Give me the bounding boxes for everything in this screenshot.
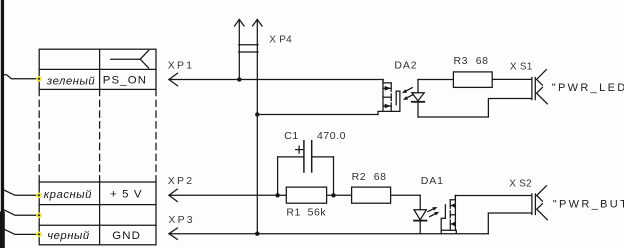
- svg-text:красный: красный: [44, 189, 92, 201]
- DA2 LED cathode rail: [417, 102, 419, 117]
- svg-text:XP1: XP1: [168, 60, 194, 72]
- DA2 LED anode rail: [417, 80, 419, 93]
- wire from frame to GND row (black): [4, 229, 40, 234]
- DA1 photon arrow 1: [428, 207, 438, 212]
- junction XP1/XP4: [237, 77, 241, 81]
- svg-text:X S1: X S1: [510, 62, 533, 73]
- wire XP3 net: [169, 233, 488, 235]
- svg-text:X P4: X P4: [269, 35, 292, 46]
- svg-text:68: 68: [476, 55, 489, 67]
- DA2 MOSFET pin rail: [382, 80, 384, 112]
- DA1 LED triangle: [414, 210, 426, 220]
- node +5V pad (yellow): [37, 193, 41, 197]
- svg-text:GND: GND: [112, 230, 141, 242]
- wire DA2 source to XP4: [257, 114, 378, 116]
- svg-text:68: 68: [374, 171, 387, 183]
- svg-text:PS_ON: PS_ON: [103, 75, 147, 87]
- junction C1 right: [331, 193, 335, 197]
- DA1 MOSFET channel: [449, 200, 451, 231]
- capacitor C1: [278, 141, 334, 196]
- XS1 plug bars: [532, 78, 535, 100]
- wire from frame to +5V row (red): [4, 190, 40, 196]
- svg-text:56k: 56k: [308, 206, 327, 218]
- svg-text:"PWR_BUT": "PWR_BUT": [553, 199, 624, 211]
- node mid pad (yellow): [37, 213, 41, 217]
- DA2 photon arrow 2: [403, 95, 413, 101]
- svg-text:черный: черный: [47, 230, 90, 242]
- junction C1 left: [275, 193, 279, 197]
- svg-text:R2: R2: [352, 171, 367, 183]
- XS1 sleeve contact: [537, 87, 548, 104]
- connector XP4 pin 1: [235, 20, 245, 80]
- resistor R2: [352, 187, 391, 203]
- wire XP1 net: [169, 79, 383, 81]
- XS2 tip contact: [537, 186, 547, 202]
- wire DA2 LED cathode to XS1 sleeve: [418, 99, 531, 118]
- dashed table column continuation: [39, 89, 156, 182]
- frame left border bar: [0, 0, 5, 248]
- XS2 plug bars: [532, 194, 536, 215]
- svg-text:+ 5 V: + 5 V: [110, 189, 143, 201]
- svg-text:X S2: X S2: [509, 178, 532, 189]
- wire DA2 LED to R3: [418, 79, 453, 81]
- wire XP2 net left: [169, 194, 286, 196]
- connector XP3 arrow: [169, 228, 177, 239]
- DA2 source bottom bar: [378, 111, 400, 114]
- wire from frame to PS_ON row (green): [4, 75, 40, 79]
- connector table outline (lower box): [39, 182, 156, 245]
- wire R3 to XS1: [492, 78, 531, 80]
- svg-text:XP2: XP2: [168, 175, 194, 187]
- svg-text:"PWR_LED": "PWR_LED": [552, 82, 624, 94]
- svg-text:DA2: DA2: [394, 59, 417, 71]
- junction XP3/XP4: [255, 232, 259, 236]
- DA1 MOSFET gate: [444, 205, 446, 219]
- wire R1-R2: [327, 194, 352, 196]
- XS2 sleeve contact: [537, 204, 548, 220]
- DA1 gate lead: [441, 218, 445, 233]
- resistor R3: [453, 72, 492, 88]
- connector XP1 arrow: [169, 73, 178, 85]
- DA2 LED triangle: [412, 93, 424, 101]
- connector XP4 pin 2: [253, 20, 263, 234]
- DA2 MOSFET channel: [390, 83, 392, 112]
- connector table outline (upper box): [39, 49, 156, 89]
- wire from frame to middle row: [4, 210, 40, 216]
- svg-text:DA1: DA1: [421, 175, 444, 187]
- svg-text:XP3: XP3: [168, 214, 194, 226]
- DA2 MOSFET contact arms: [383, 86, 391, 108]
- svg-text:C1: C1: [284, 130, 299, 142]
- node GND pad (yellow): [37, 232, 41, 236]
- node PS_ON pad (yellow): [37, 77, 41, 81]
- connector XP2 arrow: [169, 189, 177, 201]
- DA2 photon arrow 1: [402, 88, 412, 94]
- svg-text:зеленый: зеленый: [46, 76, 96, 88]
- DA2 gate lead: [396, 91, 400, 111]
- resistor R1: [286, 187, 326, 203]
- socket contact symbol in table header: [111, 50, 149, 68]
- XS1 tip contact: [537, 70, 547, 86]
- connector XP4 body bars: [239, 45, 258, 52]
- DA1 MOSFET drain stub: [450, 196, 455, 200]
- svg-text:R1: R1: [286, 206, 301, 218]
- DA1 MOSFET pin rail: [454, 196, 456, 231]
- svg-text:470.0: 470.0: [317, 130, 346, 142]
- wire DA1 drain to XS2 tip: [455, 195, 531, 197]
- DA1 LED cathode rail: [419, 221, 421, 234]
- DA2 MOSFET gate: [395, 91, 397, 105]
- DA1 LED anode rail: [419, 195, 421, 209]
- DA1 source bottom bar: [441, 230, 456, 234]
- junction DA2 source/XP4: [255, 112, 259, 116]
- DA1 MOSFET contact arms: [450, 203, 455, 226]
- wire XP3 step to XS2 sleeve: [488, 213, 531, 234]
- DA1 photon arrow 2: [430, 212, 440, 217]
- svg-text:R3: R3: [454, 55, 469, 67]
- DA2 MOSFET drain stub: [383, 80, 391, 83]
- DA1 LED cathode bar: [414, 220, 426, 222]
- DA2 LED cathode bar: [412, 101, 424, 103]
- wire R2 to DA1: [391, 194, 421, 196]
